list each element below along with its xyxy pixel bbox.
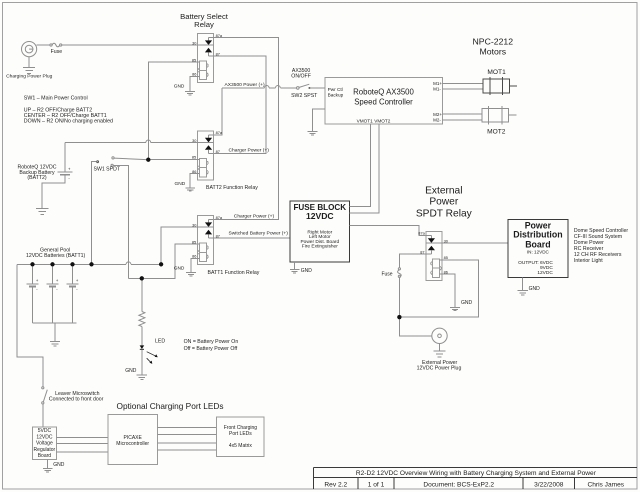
svg-text:MOT1: MOT1 <box>487 69 506 76</box>
LED matrix board <box>217 417 265 456</box>
switch microswitch (front door) <box>42 387 48 404</box>
svg-text:12VDC: 12VDC <box>537 270 553 276</box>
wire PDB to ground <box>522 278 524 291</box>
node EXT junction <box>397 315 401 319</box>
wire plug to ground <box>28 57 30 67</box>
wire AX3500 Power (+) with crossovers <box>222 86 297 88</box>
node bus-K3 pin30 <box>159 262 163 266</box>
svg-text:GND: GND <box>461 300 473 306</box>
wire K4 pin30 to distribution board <box>442 242 508 244</box>
svg-text:Port LEDs: Port LEDs <box>229 431 252 437</box>
wire K2 pin30 to battery BATT2 <box>65 140 197 142</box>
svg-text:IN: 12VDC: IN: 12VDC <box>527 250 550 255</box>
svg-text:Rev 2.2: Rev 2.2 <box>324 482 347 489</box>
wire U2 to matrix line2 <box>158 434 217 436</box>
wire K1 pin87 to K2 pin87 (Charger Power) <box>209 56 267 153</box>
relay K4 : External Power SPDT Relay <box>418 231 448 281</box>
svg-text:ON = Battery Power On: ON = Battery Power On <box>184 339 239 345</box>
wire microswitch to regulator board <box>42 404 44 427</box>
svg-text:BATT1 Function Relay: BATT1 Function Relay <box>208 270 260 276</box>
svg-text:Switched Battery Power (+): Switched Battery Power (+) <box>229 231 289 237</box>
svg-text:ON/OFF: ON/OFF <box>291 74 311 80</box>
svg-text:Fire Extinguisher: Fire Extinguisher <box>302 243 338 249</box>
svg-text:GND: GND <box>125 368 137 374</box>
ground of relay K2 <box>185 188 195 191</box>
svg-text:Distribution: Distribution <box>513 229 562 239</box>
svg-text:SPDT Relay: SPDT Relay <box>416 209 473 220</box>
wire K4 pin86 to ground <box>440 274 455 307</box>
svg-text:Charger Power (+): Charger Power (+) <box>229 147 270 153</box>
wire K2 pin87a up to AX3500 power <box>209 88 223 135</box>
wire throw2 to LED node <box>129 277 142 279</box>
wire SW2 to RoboteQ <box>311 87 325 89</box>
svg-text:SW2 SPST: SW2 SPST <box>291 93 318 99</box>
svg-text:SW1 – Main Power Control: SW1 – Main Power Control <box>24 95 88 101</box>
svg-text:M1+: M1+ <box>433 81 442 86</box>
junction dots overlay <box>146 158 150 162</box>
motor MOT1 <box>483 77 517 95</box>
title block <box>314 467 638 489</box>
ground of relay K1 <box>185 92 195 95</box>
wire K1 pin86 to ground <box>190 76 199 91</box>
wire plug J2 to ground <box>439 344 441 352</box>
wire resistor R1 to LED D1 <box>141 327 143 346</box>
ground of FB1 <box>290 270 300 273</box>
wire FB1 to K4 pin87a <box>350 225 426 235</box>
external power plug J2 <box>432 328 447 343</box>
svg-text:GND: GND <box>174 265 185 271</box>
svg-text:R2-D2 12VDC Overview Wiring wi: R2-D2 12VDC Overview Wiring with Battery… <box>356 470 597 477</box>
svg-text:87: 87 <box>216 51 220 56</box>
node bus-batt1b <box>50 262 54 266</box>
switch SW2 SPST (AX3500 ON/OFF) <box>297 84 311 89</box>
svg-text:SW1 SPDT: SW1 SPDT <box>94 167 121 173</box>
wire VR1 to U2 line1 <box>56 436 108 438</box>
svg-text:85: 85 <box>192 155 196 160</box>
LED D1 <box>140 345 158 364</box>
svg-text:RoboteQ AX3500: RoboteQ AX3500 <box>353 88 414 97</box>
node bus-batt1a <box>30 262 34 266</box>
svg-text:Fuse: Fuse <box>51 49 63 55</box>
svg-text:NPC-2212: NPC-2212 <box>473 36 514 46</box>
wire node to K3 pin85 <box>142 244 200 278</box>
wire K3 pin86 to ground <box>191 258 199 272</box>
svg-text:Interior Light: Interior Light <box>574 258 603 264</box>
svg-text:86: 86 <box>192 169 196 174</box>
wire U2 to matrix line1 <box>158 427 217 429</box>
svg-text:Chris James: Chris James <box>587 482 624 489</box>
wire K1 pin85 to node SW1-common <box>148 62 199 160</box>
svg-text:87a: 87a <box>216 33 223 38</box>
switch SW1 SPDT (main power control) <box>97 157 147 167</box>
ground of charging plug <box>23 67 35 73</box>
wire M1+ to MOT1 <box>442 82 483 84</box>
ground of BATT2 <box>36 208 48 214</box>
ground of relay K3 <box>186 273 196 276</box>
wire plug to fuse F1 <box>37 44 51 46</box>
svg-text:M2-: M2- <box>433 118 441 123</box>
svg-text:GND: GND <box>53 462 64 468</box>
svg-text:12VDC: 12VDC <box>36 434 53 440</box>
svg-text:BATT2 Function Relay: BATT2 Function Relay <box>206 185 258 191</box>
svg-text:Board: Board <box>38 453 52 459</box>
svg-text:3/22/2008: 3/22/2008 <box>534 482 564 489</box>
wire SW1 common to K2 pin85 <box>148 159 199 161</box>
svg-text:Optional Charging Port LEDs: Optional Charging Port LEDs <box>117 401 224 411</box>
battery BATT2 (RoboteQ backup) <box>57 172 72 175</box>
fuse F1 <box>50 43 62 47</box>
battery BATT1-b <box>47 264 59 323</box>
microcontroller U2 PICAXE <box>108 415 158 465</box>
ground of PDB <box>518 291 529 295</box>
svg-text:LED: LED <box>155 338 165 344</box>
wire FB1 to ground <box>294 262 296 269</box>
svg-text:M2+: M2+ <box>433 112 442 117</box>
svg-text:12VDC: 12VDC <box>306 211 334 221</box>
battery BATT1-c <box>67 264 79 323</box>
svg-text:86: 86 <box>192 254 196 259</box>
fuse block FB1 <box>290 201 349 262</box>
svg-text:Power: Power <box>429 197 458 208</box>
svg-text:4x5 Matrix: 4x5 Matrix <box>229 443 253 449</box>
ground of relay K4 <box>450 307 460 310</box>
battery BATT1-a <box>27 264 39 323</box>
ground of VR1 <box>43 469 53 472</box>
wire SW1 throw1 to battery bus <box>92 162 97 265</box>
ground of LED D1 <box>137 375 148 379</box>
svg-text:VMOT2: VMOT2 <box>374 118 391 123</box>
motor MOT2 <box>482 106 517 124</box>
wire FB1 to VMOT1 <box>350 124 371 207</box>
wire VR1 to U2 line3 <box>56 451 108 453</box>
svg-text:Charging Power Plug: Charging Power Plug <box>6 73 52 79</box>
wire M1- to MOT1 <box>442 88 483 90</box>
svg-text:86: 86 <box>192 72 196 77</box>
wire K2 pin86 to ground <box>190 174 199 188</box>
wire negative bus to ground <box>54 323 56 341</box>
wire U1 ground stub <box>313 109 326 131</box>
svg-text:MOT2: MOT2 <box>487 128 506 135</box>
node LED branch junction <box>140 276 144 280</box>
wire fuse F2 to node EXT <box>398 278 400 318</box>
svg-text:Regulator: Regulator <box>34 447 56 453</box>
svg-text:87a: 87a <box>216 215 223 220</box>
svg-text:1 of 1: 1 of 1 <box>368 482 385 489</box>
svg-text:Relay: Relay <box>194 20 214 29</box>
wire BATT2 negative to ground <box>42 176 65 208</box>
svg-text:Backup: Backup <box>328 92 344 97</box>
svg-text:12VDC Batteries (BATT1): 12VDC Batteries (BATT1) <box>26 253 86 259</box>
svg-text:87: 87 <box>216 233 220 238</box>
wire battery BATT2 positive <box>64 142 66 172</box>
wire VR1 to U2 line2 <box>56 443 108 445</box>
svg-text:12VDC Power Plug: 12VDC Power Plug <box>417 366 462 372</box>
svg-text:85: 85 <box>192 239 196 244</box>
svg-text:Voltage: Voltage <box>36 441 53 447</box>
wire K4 pin85 to node EXT <box>399 260 478 317</box>
svg-text:RC Receiver: RC Receiver <box>574 246 604 252</box>
ground of battery bank <box>50 342 60 346</box>
svg-text:VMOT1: VMOT1 <box>357 118 374 123</box>
wire battery bus negative <box>33 322 77 324</box>
wire M2+ to MOT2 <box>442 113 482 115</box>
wire node EXT to plug <box>399 317 431 336</box>
wire K4 pin87a stub <box>426 235 432 237</box>
voltage regulator board VR1 <box>33 427 57 460</box>
relay K3 : BATT1 Function Relay <box>192 215 223 265</box>
wire VR1 to ground <box>47 460 49 469</box>
svg-text:Off = Battery Power Off: Off = Battery Power Off <box>184 346 238 352</box>
ground of U1 <box>308 132 318 135</box>
svg-text:87a: 87a <box>216 130 223 135</box>
node bus-SW1 feed <box>89 262 93 266</box>
ground of plug J2 <box>433 351 445 357</box>
wire K3 pin30 to battery bus <box>161 227 197 264</box>
svg-text:87a: 87a <box>418 231 425 236</box>
svg-text:87: 87 <box>420 249 424 254</box>
wire U2 to matrix line4 <box>158 449 217 451</box>
fuse F2 <box>398 268 402 278</box>
charging power plug J1 <box>22 42 37 57</box>
svg-text:GND: GND <box>174 84 185 90</box>
svg-text:Motors: Motors <box>480 47 507 57</box>
node SW1 common junction <box>146 158 150 162</box>
svg-text:Document: BCS-ExP2.2: Document: BCS-ExP2.2 <box>423 482 494 489</box>
wire K1 pin87a to K3 pin87a (Charger Power) <box>209 38 279 220</box>
wire M2- to MOT2 <box>442 119 482 121</box>
relay K1 : Battery Select Relay <box>192 33 223 83</box>
svg-text:GND: GND <box>529 286 541 292</box>
svg-text:(BATT2): (BATT2) <box>27 175 46 181</box>
svg-text:85: 85 <box>444 255 448 260</box>
relay K2 : BATT2 Function Relay <box>192 130 223 180</box>
wire FB1 to VMOT2 <box>350 124 379 213</box>
wire U2 to matrix line3 <box>158 442 217 444</box>
svg-text:Board: Board <box>525 240 550 250</box>
wire bus to microswitch <box>17 264 43 386</box>
svg-text:86: 86 <box>444 269 448 274</box>
wire LED D1 to ground <box>141 349 143 374</box>
wire K4 pin87 to fuse F2 <box>399 254 431 268</box>
svg-text:GND: GND <box>175 181 186 187</box>
power distribution board PDB <box>508 220 568 278</box>
resistor R1 <box>139 312 145 327</box>
wire battery bus positive <box>17 262 161 264</box>
svg-text:87: 87 <box>216 149 220 154</box>
wire node to resistor R1 <box>141 278 143 311</box>
wire K3 pin87 to fuse block <box>209 237 291 239</box>
svg-text:PICAXE: PICAXE <box>124 435 143 441</box>
svg-text:AX3500 Power (+): AX3500 Power (+) <box>225 82 265 88</box>
svg-text:85: 85 <box>192 57 196 62</box>
svg-text:M1-: M1- <box>433 87 441 92</box>
svg-text:Microcontroller: Microcontroller <box>116 441 149 447</box>
svg-text:Connected to front door: Connected to front door <box>49 397 104 403</box>
controller U1 RoboteQ AX3500 <box>325 78 442 125</box>
svg-text:DOWN – R2 ON/No charging enabl: DOWN – R2 ON/No charging enabled <box>24 119 113 125</box>
svg-text:Speed Controller: Speed Controller <box>354 97 413 106</box>
wire fuse F1 to relay K1 pin30 <box>62 44 198 46</box>
svg-text:Charger Power (+): Charger Power (+) <box>234 213 275 219</box>
svg-text:5VDC: 5VDC <box>38 428 52 434</box>
node bus-batt1c <box>70 262 74 266</box>
svg-text:External: External <box>425 185 462 196</box>
svg-text:GND: GND <box>301 268 313 274</box>
svg-text:Fuse: Fuse <box>381 272 392 278</box>
wire SW1 throw2 across <box>113 165 128 278</box>
